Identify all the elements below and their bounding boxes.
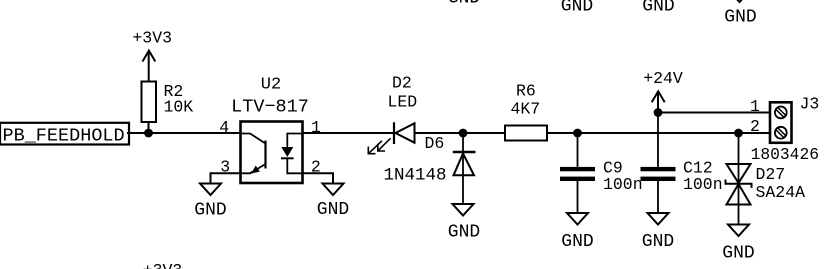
svg-text:SA24A: SA24A: [756, 183, 806, 202]
svg-text:GND: GND: [448, 223, 480, 243]
ground at D27: [722, 225, 754, 264]
svg-text:1: 1: [750, 97, 760, 116]
svg-text:LED: LED: [388, 93, 418, 112]
svg-text:D27: D27: [756, 165, 786, 184]
wire R6 to J3 pin 2: [547, 132, 770, 134]
svg-text:GND: GND: [448, 0, 480, 9]
svg-text:J3: J3: [800, 95, 820, 114]
wire main: PB_FEEDHOLD to U2 pin 4: [127, 132, 241, 134]
svg-text:2: 2: [750, 117, 760, 136]
diode D2 LED: [368, 74, 417, 154]
node junction at +24V / J3 pin 1: [654, 108, 663, 117]
svg-text:10K: 10K: [164, 98, 194, 117]
ground at U2 pin 3: [194, 184, 226, 221]
svg-text:GND: GND: [194, 201, 226, 221]
wire +24V to J3 pin 1: [658, 112, 770, 114]
ground text remnant top 2: [561, 0, 593, 17]
ground at D6: [448, 204, 480, 243]
pin 1 number: [311, 118, 321, 137]
svg-text:+24V: +24V: [643, 69, 683, 88]
node junction at R2 bottom: [144, 129, 153, 138]
connector J3: [751, 95, 820, 164]
node junction at C9: [573, 129, 582, 138]
node junction at D27: [734, 129, 743, 138]
svg-text:GND: GND: [561, 0, 593, 17]
svg-text:R6: R6: [516, 82, 536, 101]
svg-text:4K7: 4K7: [511, 100, 541, 119]
svg-text:1: 1: [311, 118, 321, 137]
svg-text:U2: U2: [261, 76, 281, 95]
node junction at D6: [459, 129, 468, 138]
diode LED inside U2: [281, 134, 302, 174]
ground text remnant top 3: [642, 0, 674, 17]
svg-text:GND: GND: [561, 232, 593, 252]
ground remnant top 4: [724, 0, 756, 28]
svg-text:1N4148: 1N4148: [384, 165, 447, 185]
net label PB_FEEDHOLD: [0, 123, 129, 147]
transistor inside U2: [242, 134, 266, 174]
pin 1 number J3: [750, 97, 760, 116]
wire U2 pin 1 to D2: [303, 132, 395, 134]
label U2: [261, 76, 281, 95]
pin 2 number: [311, 158, 321, 177]
resistor R2: [142, 82, 194, 134]
ground text remnant top 1: [448, 0, 480, 9]
svg-text:LTV−817: LTV−817: [231, 97, 309, 118]
wire D2 to R6: [415, 132, 506, 134]
pin 2 number J3: [750, 117, 760, 136]
pin 4 number: [219, 118, 229, 137]
power +24V: [643, 69, 683, 113]
svg-text:100n: 100n: [683, 175, 723, 194]
ground at C9: [561, 213, 593, 252]
svg-text:GND: GND: [317, 200, 349, 220]
ground at U2 pin 2: [317, 184, 349, 221]
svg-text:GND: GND: [642, 0, 674, 17]
ground at C12: [642, 213, 674, 252]
diode D27 TVS: [726, 133, 806, 226]
wire U2 pin 2 to ground: [303, 173, 334, 184]
power +3V3: [132, 29, 172, 82]
wire U2 pin 3 to ground: [211, 173, 241, 184]
diode D6: [384, 133, 476, 206]
capacitor C9: [560, 133, 643, 215]
label LTV-817: [231, 97, 309, 118]
svg-text:+3V3: +3V3: [143, 261, 183, 269]
svg-text:D6: D6: [425, 134, 445, 153]
svg-text:GND: GND: [724, 8, 756, 28]
svg-text:100n: 100n: [603, 175, 643, 194]
power +3V3 text remnant bottom: [143, 261, 183, 269]
op-amp U2 optocoupler box: [241, 122, 303, 184]
resistor R6: [505, 82, 547, 141]
svg-text:GND: GND: [722, 244, 754, 264]
svg-text:+3V3: +3V3: [132, 29, 172, 48]
svg-text:PB_FEEDHOLD: PB_FEEDHOLD: [3, 126, 125, 147]
svg-text:4: 4: [219, 118, 229, 137]
capacitor C12: [641, 113, 723, 216]
svg-text:1803426: 1803426: [751, 145, 819, 164]
svg-text:D2: D2: [392, 74, 412, 93]
svg-text:GND: GND: [642, 232, 674, 252]
pin 3 number: [220, 158, 230, 177]
